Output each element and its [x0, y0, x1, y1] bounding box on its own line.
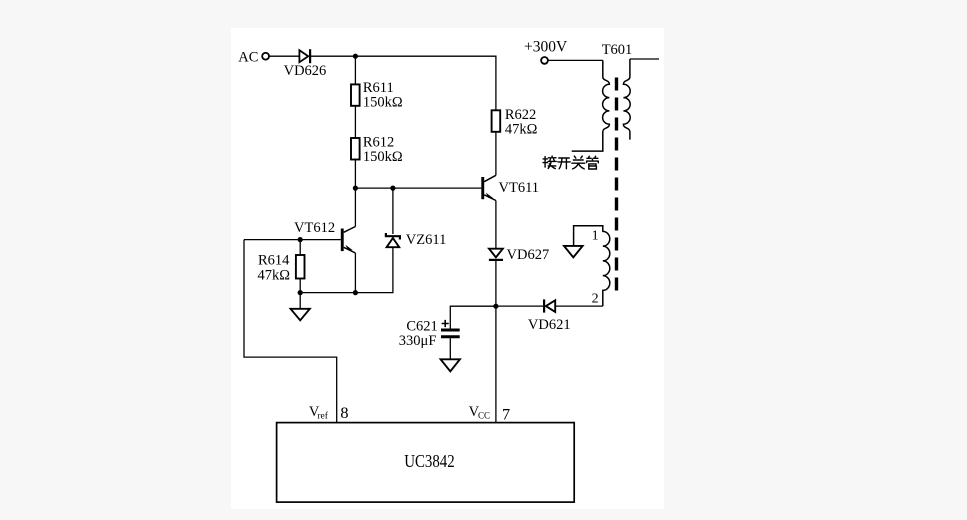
- wire VT612 emitter: [354, 253, 356, 293]
- wire VT611 emitter: [495, 201, 497, 249]
- svg-text:VD627: VD627: [507, 247, 550, 263]
- wire to VD621: [496, 305, 543, 307]
- wire node B: [355, 187, 481, 189]
- junction dot: [298, 290, 303, 295]
- svg-text:2: 2: [592, 292, 599, 307]
- svg-text:VD626: VD626: [284, 63, 327, 79]
- resistor R611: [351, 84, 360, 105]
- wire: [449, 338, 451, 359]
- junction dot: [353, 290, 358, 295]
- wire: [392, 188, 394, 234]
- svg-text:ref: ref: [317, 410, 328, 421]
- label jie kai guan guan: [543, 156, 598, 169]
- wire +300V: [548, 59, 603, 61]
- junction dot: [493, 304, 498, 309]
- svg-text:8: 8: [340, 403, 348, 422]
- capacitor C621: [441, 320, 460, 337]
- svg-text:VT612: VT612: [294, 220, 335, 236]
- svg-text:1: 1: [592, 228, 599, 243]
- wire: [310, 56, 496, 110]
- ground below C621: [441, 359, 460, 371]
- diode VD627: [489, 249, 503, 260]
- transformer primary winding: [572, 60, 610, 151]
- svg-text:7: 7: [502, 405, 510, 424]
- transistor VT611: [481, 175, 496, 200]
- wire VT611 collector: [495, 132, 497, 176]
- wire VT612 collector: [354, 188, 356, 226]
- IC UC3842: [277, 423, 575, 503]
- svg-text:R614: R614: [258, 252, 290, 268]
- wire top right: [630, 58, 659, 60]
- resistor R612: [351, 138, 360, 160]
- wire: [299, 240, 301, 255]
- terminal AC input: [262, 53, 269, 60]
- transformer secondary lower winding: [574, 226, 610, 306]
- wire: [354, 106, 356, 138]
- svg-text:AC: AC: [238, 49, 258, 65]
- svg-text:R611: R611: [363, 80, 394, 96]
- transformer core: [615, 78, 618, 292]
- wire: [555, 305, 603, 307]
- svg-text:330μF: 330μF: [399, 333, 437, 349]
- transistor VT612: [341, 227, 356, 254]
- junction dot: [353, 54, 358, 59]
- wire: [269, 55, 299, 57]
- diode VD621: [544, 299, 555, 312]
- ground at winding pin 1: [564, 246, 583, 258]
- terminal +300V: [541, 57, 548, 64]
- junction dot: [298, 237, 303, 242]
- zener VZ611: [386, 233, 400, 247]
- svg-text:+300V: +300V: [524, 38, 568, 55]
- svg-text:47kΩ: 47kΩ: [505, 122, 538, 138]
- svg-text:VZ611: VZ611: [406, 232, 447, 248]
- svg-text:VT611: VT611: [499, 180, 540, 196]
- wire VD627 to pin 7: [495, 261, 497, 423]
- svg-text:UC3842: UC3842: [404, 451, 455, 471]
- svg-text:47kΩ: 47kΩ: [258, 268, 291, 284]
- svg-text:150kΩ: 150kΩ: [363, 149, 403, 165]
- resistor R614: [296, 255, 305, 279]
- svg-text:T601: T601: [602, 42, 633, 58]
- svg-text:R622: R622: [505, 107, 536, 123]
- resistor R622: [492, 110, 501, 132]
- wire left rail to pin 8: [244, 240, 337, 423]
- wire: [354, 160, 356, 189]
- ground below R614: [291, 309, 310, 321]
- junction dot: [390, 186, 395, 191]
- wire node C: [300, 247, 393, 292]
- wire to C621: [450, 306, 496, 328]
- transformer secondary upper winding: [623, 59, 630, 140]
- svg-text:150kΩ: 150kΩ: [363, 95, 403, 111]
- wire VT612 base: [244, 239, 341, 241]
- svg-text:CC: CC: [478, 411, 490, 421]
- junction dot: [353, 186, 358, 191]
- wire: [354, 56, 356, 84]
- svg-text:VD621: VD621: [528, 317, 571, 333]
- diode VD626: [299, 49, 310, 63]
- wire: [299, 279, 301, 309]
